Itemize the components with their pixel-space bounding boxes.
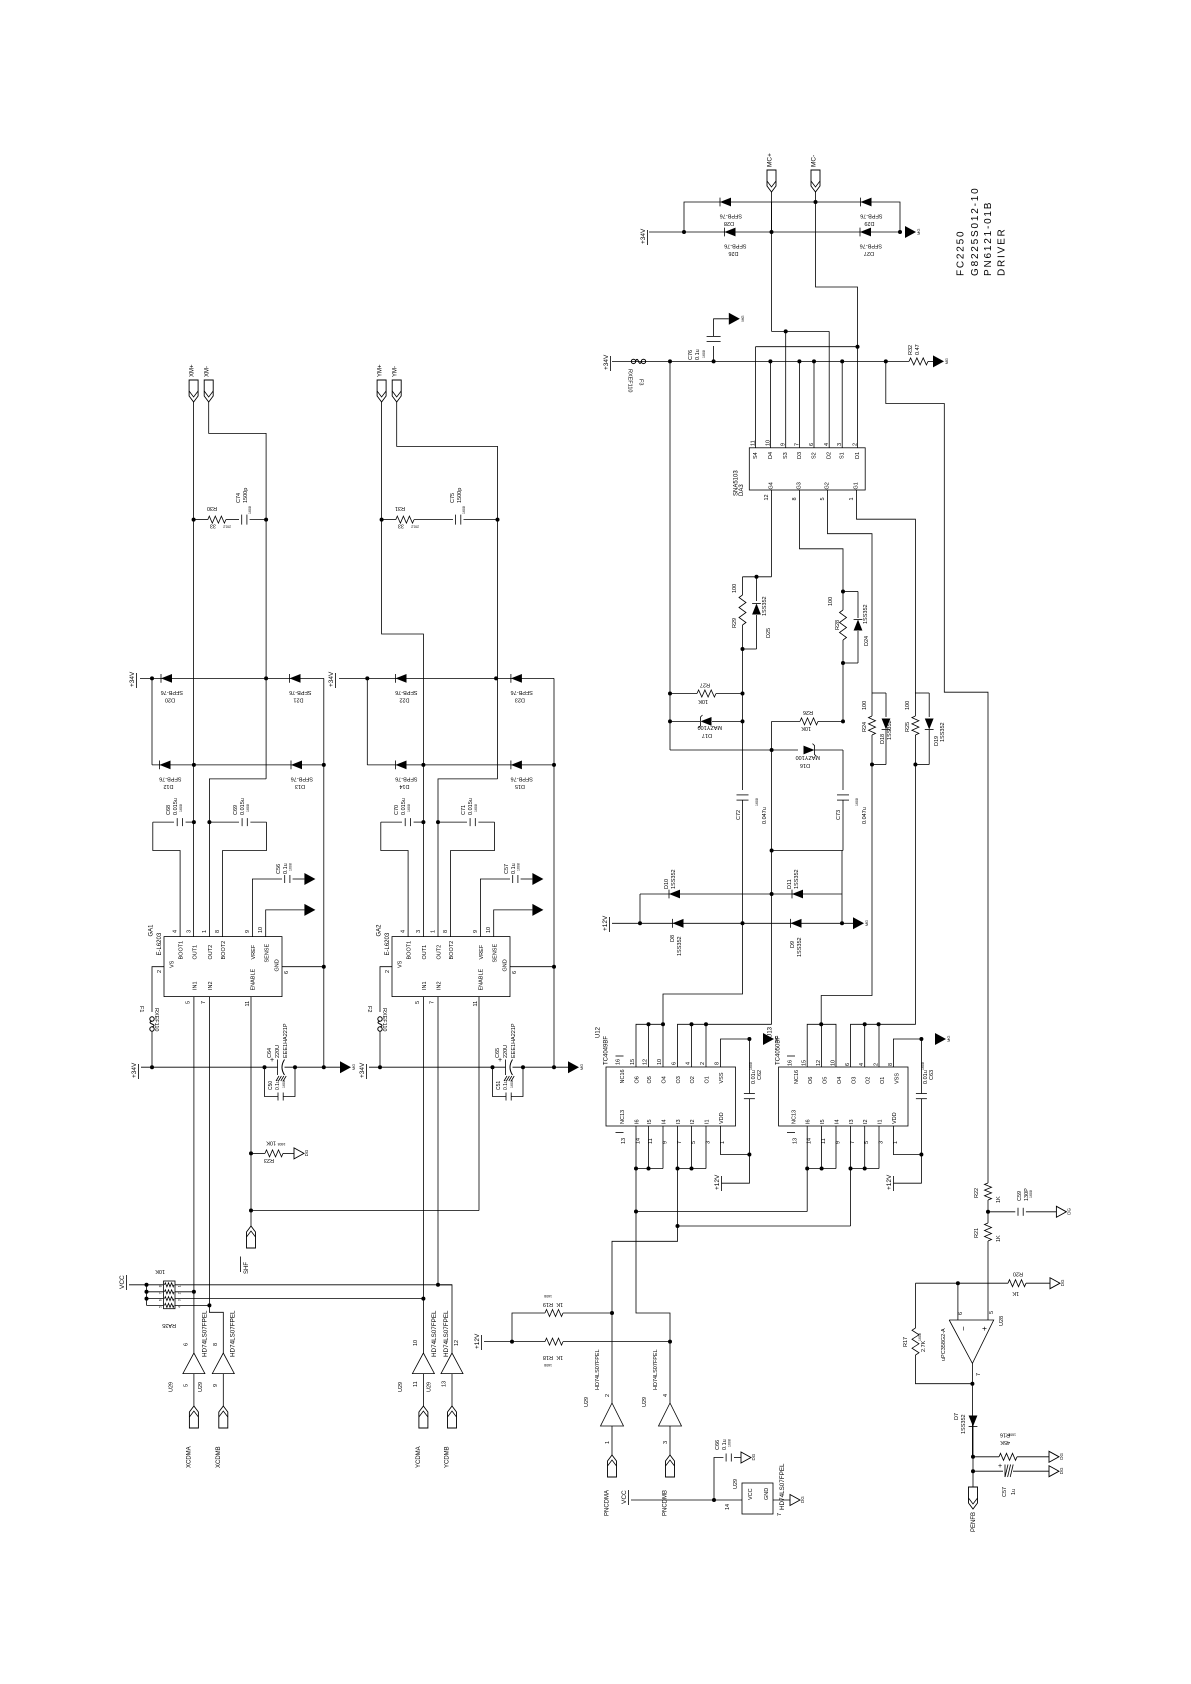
ground DG C59: [1056, 1206, 1071, 1217]
node D1 on MC- tie: [856, 345, 860, 349]
node rail S2: [812, 359, 816, 363]
svg-text:7: 7: [201, 1001, 207, 1004]
resistor R28 100: [828, 592, 858, 664]
svg-text:+: +: [998, 1463, 1002, 1470]
svg-text:100: 100: [828, 597, 834, 606]
node S3 on MC+ tie: [784, 329, 788, 333]
svg-text:0.1u: 0.1u: [695, 349, 701, 360]
wire GA1 GND to x323: [282, 966, 324, 968]
zener D16 MAZY100: [796, 744, 843, 768]
wire Y bridge right drop: [553, 678, 555, 765]
wire D8/D9 row y923: [612, 922, 853, 924]
resistor R30 33: [194, 505, 239, 529]
wire U12 input tie 7-5-3: [677, 1126, 679, 1169]
IC U13 TC4050BF: [768, 1026, 909, 1126]
buffer U29 gate PNCDMB: [642, 1349, 682, 1455]
node R28/D24 top: [841, 590, 845, 594]
svg-text:U29: U29: [427, 1382, 433, 1392]
buffer U29 gate XCDMA: [168, 1310, 208, 1406]
svg-text:DG: DG: [800, 1496, 805, 1503]
svg-text:I3: I3: [849, 1119, 855, 1124]
diode D25 1SS352: [752, 577, 772, 649]
wire x554 column: [553, 765, 555, 1067]
svg-text:O4: O4: [662, 1076, 668, 1083]
svg-text:MG: MG: [864, 920, 869, 926]
op-amp U28 uPC358G2-A: [941, 1311, 1005, 1376]
svg-text:BOOT2: BOOT2: [221, 941, 227, 960]
svg-text:+34V: +34V: [640, 228, 647, 244]
svg-text:1608: 1608: [544, 1294, 552, 1298]
svg-text:D13: D13: [295, 783, 305, 789]
node x771 on D10 row: [770, 892, 774, 896]
resistor R19 1K: [512, 1294, 612, 1342]
svg-text:1: 1: [849, 497, 855, 500]
svg-text:1608: 1608: [510, 1080, 514, 1088]
connector YM+: [377, 364, 386, 402]
wire SHF tie row: [251, 1210, 479, 1212]
wire SENSE to MG: [266, 910, 305, 937]
svg-text:7: 7: [850, 1141, 856, 1144]
node SHF junction: [249, 1209, 253, 1213]
capacitor C72 0.047u: [736, 795, 768, 923]
wire PNCDMB down to buffer4: [636, 1212, 670, 1404]
resistor R16 15K: [973, 1432, 1049, 1461]
svg-text:G2: G2: [825, 482, 831, 489]
svg-text:5: 5: [185, 1001, 191, 1004]
capacitor C70 0.015u: [381, 798, 424, 936]
wire G1 route: [857, 490, 916, 693]
svg-text:3: 3: [178, 1299, 182, 1301]
diode D15 SFPB-76: [511, 761, 533, 789]
ground MG X rail: [340, 1061, 356, 1073]
svg-text:S3: S3: [783, 452, 789, 459]
svg-text:R19: R19: [543, 1301, 553, 1307]
svg-text:1: 1: [605, 1441, 611, 1444]
svg-text:6: 6: [159, 1299, 163, 1301]
svg-text:3: 3: [416, 930, 422, 933]
wire output to PENFB: [972, 1421, 974, 1487]
node -input: [956, 1281, 960, 1285]
connector YCDMB: [445, 1406, 457, 1468]
wire U12 output bus right: [678, 1024, 772, 1067]
diode D18 1SS352: [880, 693, 893, 765]
svg-text:9: 9: [245, 930, 251, 933]
svg-text:C59: C59: [1017, 1191, 1023, 1201]
svg-text:1608: 1608: [248, 506, 252, 514]
svg-text:MC-: MC-: [811, 155, 818, 167]
wire G4 drop: [771, 490, 773, 577]
svg-text:NC16: NC16: [620, 1069, 626, 1083]
svg-text:16: 16: [788, 1060, 794, 1066]
wire pullup row1 to YCDMB net: [175, 1284, 452, 1286]
svg-text:O4: O4: [837, 1077, 843, 1084]
svg-text:1SS352: 1SS352: [887, 720, 893, 740]
svg-text:1K: 1K: [556, 1301, 563, 1307]
svg-text:C70: C70: [394, 805, 400, 815]
svg-text:10K: 10K: [266, 1140, 276, 1146]
zener D17 MAZY100: [670, 715, 743, 738]
svg-text:12: 12: [643, 1059, 649, 1065]
svg-text:O6: O6: [808, 1077, 814, 1084]
connector XM-: [204, 366, 213, 402]
ground DG R16: [1049, 1451, 1064, 1462]
svg-text:O6: O6: [635, 1076, 641, 1083]
svg-text:+34V: +34V: [131, 1062, 138, 1078]
svg-text:3: 3: [186, 930, 192, 933]
node rail D4: [768, 359, 772, 363]
svg-text:2: 2: [157, 970, 163, 973]
svg-text:VDD: VDD: [719, 1112, 725, 1124]
svg-text:SFPB-76: SFPB-76: [159, 775, 181, 781]
svg-text:GND: GND: [764, 1488, 770, 1500]
wire S1 drop: [841, 361, 843, 447]
svg-text:PENFB: PENFB: [971, 1512, 977, 1532]
svg-text:D27: D27: [864, 250, 874, 256]
diode D28 SFPB-76: [720, 198, 742, 226]
node MC- junction upper: [814, 200, 818, 204]
svg-text:DG: DG: [1066, 1208, 1071, 1215]
svg-text:O3: O3: [676, 1076, 682, 1083]
svg-text:U12: U12: [596, 1026, 602, 1038]
svg-text:SFPB-76: SFPB-76: [511, 689, 533, 695]
svg-text:EEE1HA221P: EEE1HA221P: [283, 1023, 289, 1058]
wire -input drop: [957, 1283, 959, 1320]
svg-text:C71: C71: [461, 805, 467, 815]
svg-text:MG: MG: [916, 229, 921, 235]
wire X bridge left drop: [151, 678, 153, 765]
svg-text:1: 1: [202, 930, 208, 933]
svg-text:D12: D12: [163, 783, 173, 789]
wire U13 VDD to +12V node: [893, 1126, 921, 1155]
svg-text:45K: 45K: [1000, 1439, 1010, 1445]
svg-text:D14: D14: [399, 783, 409, 789]
node X bridge bottom right: [322, 763, 326, 767]
svg-text:S4: S4: [753, 452, 759, 459]
wire Y bridge top row: [339, 677, 554, 679]
svg-text:R30: R30: [207, 505, 217, 511]
svg-text:7: 7: [777, 1513, 783, 1516]
resistor R20 1K: [988, 1271, 1050, 1297]
svg-text:1608: 1608: [918, 1333, 922, 1341]
svg-text:I1: I1: [878, 1119, 884, 1124]
svg-text:ENABLE: ENABLE: [479, 968, 485, 990]
svg-text:I2: I2: [690, 1119, 696, 1124]
wire U12 VDD to +12V node: [721, 1126, 750, 1155]
svg-text:3: 3: [706, 1141, 712, 1144]
IC SNA5103 DA3: [734, 440, 866, 501]
wire YM- jog to OUT2 col Y: [438, 779, 498, 937]
svg-text:OUT1: OUT1: [192, 945, 198, 960]
connector SHF: [241, 1226, 256, 1274]
resistor R31 33: [382, 505, 453, 529]
svg-text:SFPB-76: SFPB-76: [395, 689, 417, 695]
svg-text:NC13: NC13: [620, 1110, 626, 1124]
wire XM+ column: [193, 402, 195, 937]
svg-text:1608: 1608: [462, 506, 466, 514]
wire pullup row4 to XCDMB net: [175, 1304, 209, 1306]
capacitor C75 1500p: [450, 488, 498, 525]
wire X bridge top row: [140, 677, 324, 679]
svg-text:10: 10: [486, 927, 492, 933]
svg-text:D18: D18: [880, 734, 886, 744]
ground DG R20: [1050, 1278, 1065, 1289]
svg-text:+: +: [980, 1326, 989, 1331]
wire D10/D11 row y894: [640, 893, 842, 895]
svg-text:HD74LS07FPEL: HD74LS07FPEL: [443, 1310, 450, 1357]
svg-text:C73: C73: [836, 810, 842, 820]
svg-text:1608: 1608: [246, 804, 250, 812]
svg-text:4: 4: [173, 930, 179, 933]
svg-text:D16: D16: [800, 762, 810, 768]
svg-text:7: 7: [976, 1373, 982, 1376]
svg-text:PNCDMB: PNCDMB: [663, 1490, 669, 1516]
svg-text:2012: 2012: [411, 525, 419, 529]
svg-text:BOOT2: BOOT2: [449, 941, 455, 960]
svg-text:5: 5: [989, 1311, 995, 1314]
svg-text:D25: D25: [766, 628, 772, 638]
wire G3 route: [800, 490, 844, 592]
svg-text:1SS352: 1SS352: [671, 869, 677, 889]
capacitor C59 130P: [988, 1188, 1056, 1216]
svg-text:YCDMA: YCDMA: [416, 1446, 422, 1468]
svg-text:SFPB-76: SFPB-76: [724, 243, 746, 249]
svg-text:1SS352: 1SS352: [762, 596, 768, 616]
node R26 right: [841, 719, 845, 723]
capacitor C66 0.1u: [714, 1439, 741, 1500]
wire YM- jog to x497: [397, 402, 498, 779]
wire ENABLE X column: [250, 997, 252, 1227]
wire U12 VSS to MG: [721, 1039, 750, 1067]
svg-text:2012: 2012: [223, 525, 231, 529]
diode D19 1SS352: [925, 693, 946, 765]
wire x742 to U12 pin10 feed: [663, 923, 743, 1024]
svg-text:2: 2: [700, 1062, 706, 1065]
svg-text:IN2: IN2: [208, 981, 214, 990]
wire MC+ tie S3 D2: [772, 330, 830, 332]
diode D21 SFPB-76: [289, 674, 311, 702]
node U13 bus right dots: [863, 1022, 867, 1026]
node U12 tie2 dots: [676, 1167, 680, 1171]
svg-text:R25: R25: [905, 722, 911, 732]
svg-text:4: 4: [663, 1394, 669, 1397]
wire RA35 left tie: [146, 1285, 148, 1306]
svg-text:SFPB-76: SFPB-76: [511, 775, 533, 781]
svg-text:GND: GND: [503, 959, 509, 971]
wire U13 input tie 7-5-3: [850, 1126, 852, 1169]
svg-text:C75: C75: [450, 493, 456, 503]
node YM- top row: [494, 676, 498, 680]
svg-text:PN6121-01B: PN6121-01B: [983, 201, 994, 276]
wire U12 pin2 riser: [705, 1024, 707, 1067]
ground DG C66: [741, 1452, 756, 1463]
svg-text:33: 33: [210, 523, 216, 529]
node R27 right: [741, 692, 745, 696]
ground MG C57a: [532, 873, 543, 885]
svg-text:+12V: +12V: [886, 1174, 893, 1190]
svg-text:10K: 10K: [698, 698, 708, 704]
svg-text:U29: U29: [168, 1382, 174, 1392]
svg-text:I2: I2: [863, 1119, 869, 1124]
svg-text:VCC: VCC: [748, 1488, 754, 1500]
svg-text:+34V: +34V: [359, 1062, 366, 1078]
svg-text:1SS352: 1SS352: [940, 722, 946, 742]
svg-text:G8225S012-10: G8225S012-10: [970, 187, 981, 276]
svg-text:R27: R27: [700, 682, 710, 688]
buffer U29 gate PNCDMA: [584, 1349, 624, 1455]
svg-text:0.047u: 0.047u: [762, 807, 768, 824]
resistor R25 100: [905, 693, 929, 765]
svg-text:11: 11: [821, 1138, 827, 1144]
node R29/D25 bottom: [741, 647, 757, 694]
connector MC+: [767, 153, 777, 192]
node U12 bus right dots: [690, 1022, 694, 1026]
svg-text:C69: C69: [233, 805, 239, 815]
svg-text:SFPB-76: SFPB-76: [289, 689, 311, 695]
svg-text:uPC358G2-A: uPC358G2-A: [941, 1328, 947, 1361]
svg-text:RXEF110: RXEF110: [627, 369, 633, 392]
svg-text:D22: D22: [399, 696, 409, 702]
svg-text:5: 5: [183, 1384, 189, 1387]
svg-text:1500p: 1500p: [243, 488, 249, 503]
svg-text:14: 14: [807, 1138, 813, 1144]
label +34V X rail: [131, 1062, 139, 1079]
node XM- top row: [264, 676, 268, 680]
svg-text:U29: U29: [642, 1397, 648, 1407]
wire C73 bottom jog: [772, 850, 843, 852]
svg-text:1SS352: 1SS352: [863, 604, 869, 624]
capacitor C51 0.1u parallel: [493, 1067, 524, 1100]
svg-text:1K: 1K: [996, 1196, 1002, 1203]
capacitor C64 220u polarized: [267, 1023, 289, 1081]
node row2 x194: [192, 1290, 196, 1294]
svg-text:1608: 1608: [289, 863, 293, 871]
node rail C64 left: [263, 1065, 267, 1069]
node rail x670: [668, 359, 672, 363]
wire D16 row y750: [670, 749, 798, 751]
label VCC: [119, 1275, 127, 1290]
wire PNCDMB net U12-U13: [635, 1169, 637, 1212]
node R23 junction: [249, 1151, 253, 1155]
svg-text:220U: 220U: [275, 1045, 281, 1058]
svg-text:C65: C65: [495, 1048, 501, 1058]
svg-text:R23: R23: [264, 1157, 274, 1163]
IC GA1 E-L6203: [149, 924, 291, 1007]
svg-text:SENSE: SENSE: [264, 944, 270, 963]
wire X bridge bottom row: [152, 764, 324, 766]
svg-text:D24: D24: [864, 636, 870, 646]
svg-text:O5: O5: [647, 1076, 653, 1083]
wire MC- tie S4 D1: [756, 346, 858, 348]
svg-text:R21: R21: [974, 1228, 980, 1238]
svg-text:O3: O3: [852, 1077, 858, 1084]
node MC+ junction: [770, 230, 774, 234]
ground MG R32: [933, 355, 949, 367]
svg-text:−: −: [959, 1326, 968, 1331]
svg-text:1: 1: [431, 930, 437, 933]
svg-text:I1: I1: [705, 1119, 711, 1124]
buffer U29 gate YCDMA: [398, 1310, 438, 1406]
node row4 x209: [207, 1303, 211, 1307]
svg-text:D26: D26: [728, 250, 738, 256]
wire X bridge right drop: [323, 678, 325, 765]
ground DG U29 GND: [790, 1495, 805, 1506]
wire feedback to -input: [916, 1282, 989, 1284]
svg-text:BOOT1: BOOT1: [179, 941, 185, 960]
svg-text:2: 2: [853, 443, 859, 446]
power block U29 VCC/GND: [725, 1463, 790, 1516]
svg-text:MG: MG: [740, 315, 745, 321]
svg-text:XM-: XM-: [205, 366, 211, 377]
wire U13 pin4 riser: [864, 1024, 866, 1067]
node U13 VSS/C63: [919, 1037, 923, 1041]
node R16 branch: [971, 1455, 975, 1459]
wire x771 long drop: [771, 750, 773, 1024]
svg-text:0.047u: 0.047u: [862, 807, 868, 824]
svg-text:MC+: MC+: [767, 153, 774, 167]
wire x915 drop to U13 bus: [879, 765, 916, 1025]
svg-text:O2: O2: [690, 1076, 696, 1083]
node C57 branch: [971, 1469, 975, 1473]
connector XCDMB: [216, 1406, 228, 1468]
svg-text:6: 6: [512, 971, 518, 974]
svg-text:R28: R28: [835, 620, 841, 630]
ground MG C76: [729, 313, 745, 325]
label +34V Y rail: [359, 1062, 367, 1079]
svg-text:MG: MG: [774, 1036, 779, 1042]
wire PNCDMA jog to buffer2: [612, 1226, 678, 1403]
connector PNCDMB: [663, 1455, 675, 1516]
pin labels U13 bottom: [787, 1110, 899, 1144]
diode D27 SFPB-76: [860, 228, 882, 256]
svg-text:D9: D9: [790, 941, 796, 948]
wire +12V to pullups: [484, 1341, 545, 1343]
svg-text:VS: VS: [170, 960, 176, 968]
svg-text:OUT2: OUT2: [437, 945, 443, 960]
svg-text:MAZY100: MAZY100: [698, 724, 722, 730]
svg-text:8: 8: [213, 1343, 219, 1346]
svg-text:O5: O5: [823, 1077, 829, 1084]
label +34V rail: [603, 354, 611, 371]
svg-text:C57: C57: [1002, 1487, 1008, 1497]
svg-text:D2: D2: [827, 452, 833, 459]
svg-text:0.1u: 0.1u: [275, 1080, 281, 1090]
wire S4 drop: [755, 347, 757, 448]
svg-text:5: 5: [820, 497, 826, 500]
svg-text:I6: I6: [806, 1119, 812, 1124]
svg-text:13: 13: [442, 1381, 448, 1387]
svg-text:R20: R20: [1013, 1271, 1023, 1277]
svg-text:1K: 1K: [996, 1235, 1002, 1242]
node x640: [638, 921, 642, 925]
svg-text:YM-: YM-: [393, 366, 399, 377]
svg-text:5: 5: [415, 1001, 421, 1004]
svg-text:33: 33: [398, 523, 404, 529]
svg-text:D20: D20: [165, 696, 175, 702]
svg-text:8: 8: [443, 930, 449, 933]
node Y bridge x367: [365, 676, 369, 680]
node rail D3: [797, 359, 801, 363]
pin labels U13 top: [787, 1056, 900, 1084]
wire VCC to RA35: [129, 1284, 164, 1286]
wire S3 drop: [785, 331, 787, 447]
wire D2 drop: [828, 331, 830, 447]
ground MG Y rail: [568, 1061, 584, 1073]
wire U12 pin12 riser: [648, 1024, 650, 1067]
resistor R27 10K: [670, 682, 743, 705]
svg-text:SFPB-76: SFPB-76: [395, 775, 417, 781]
svg-text:U29: U29: [198, 1382, 204, 1392]
IC U12 TC4050BF: [596, 1026, 736, 1126]
